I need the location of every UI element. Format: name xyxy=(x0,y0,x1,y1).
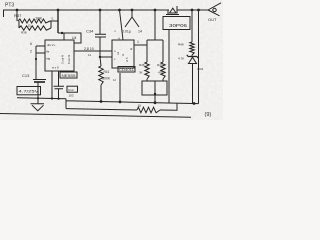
resistor R41 xyxy=(99,57,103,102)
svg-text:thr: thr xyxy=(46,50,50,54)
node dot P xyxy=(154,101,157,104)
svg-text:103: 103 xyxy=(69,94,74,98)
svg-text:w z 8: w z 8 xyxy=(52,66,59,70)
svg-text:8 vcc N: 8 vcc N xyxy=(67,55,71,64)
capacitor C14 on pin 5 xyxy=(54,71,65,99)
node dot F xyxy=(154,9,157,12)
node dot O xyxy=(119,101,122,104)
svg-text:v2: v2 xyxy=(116,52,120,56)
node dot A xyxy=(16,9,19,12)
svg-text:ct: ct xyxy=(121,54,125,57)
svg-text:6: 6 xyxy=(30,42,32,46)
svg-text:300K: 300K xyxy=(103,77,111,81)
node dot N xyxy=(100,100,103,103)
svg-text:(9): (9) xyxy=(205,112,212,118)
svg-text:dis V+: dis V+ xyxy=(47,43,56,47)
wire bottom bus xyxy=(66,99,199,109)
wire IC2 bottom to bus xyxy=(119,73,121,102)
svg-text:2,8 10: 2,8 10 xyxy=(84,47,94,51)
node dot R xyxy=(99,56,101,58)
resistor R48 xyxy=(190,10,194,57)
resistor R37 xyxy=(18,19,58,23)
connector OUT xyxy=(208,3,221,16)
gate IC2 box xyxy=(112,40,134,68)
svg-text:4.7K: 4.7K xyxy=(178,57,184,61)
resistor R47 xyxy=(161,40,165,81)
node dot D xyxy=(118,9,121,12)
op-amp U4 timer IC1 box xyxy=(45,40,74,71)
svg-text:14: 14 xyxy=(138,30,142,34)
resistor R49 xyxy=(137,107,160,113)
wire Q1 to bus xyxy=(168,30,170,104)
label NE555 xyxy=(60,72,77,78)
svg-text:R48: R48 xyxy=(178,43,184,47)
node dot S xyxy=(154,93,156,95)
node dot H xyxy=(197,9,200,12)
svg-text:C34: C34 xyxy=(86,29,94,34)
svg-text:trig: trig xyxy=(46,57,50,61)
svg-text:NE555: NE555 xyxy=(62,74,76,78)
svg-text:R41: R41 xyxy=(104,70,110,74)
svg-text:G: G xyxy=(28,24,31,28)
svg-text:4.7/25V: 4.7/25V xyxy=(19,90,40,94)
capacitor C34 xyxy=(95,10,106,57)
wire node to IC2 pin xyxy=(100,56,112,58)
node dot C13 gnd xyxy=(37,97,39,99)
label CD4011 xyxy=(118,67,135,73)
svg-text:47K: 47K xyxy=(158,71,163,75)
svg-text:3K: 3K xyxy=(139,71,143,75)
svg-text:3 out N: 3 out N xyxy=(61,55,65,64)
svg-text:11: 11 xyxy=(88,53,91,57)
capacitor C35 branch xyxy=(125,10,139,27)
svg-text:R37: R37 xyxy=(14,13,22,18)
ground xyxy=(31,104,45,111)
pin 2 wire xyxy=(36,52,45,54)
bottom rule xyxy=(0,114,191,118)
wire right column xyxy=(198,10,200,104)
svg-text:1: 1 xyxy=(137,40,139,44)
wire rail to R46 R47 xyxy=(147,10,163,40)
node dot M xyxy=(57,98,59,100)
svg-text:10K: 10K xyxy=(35,16,42,21)
svg-text:0.01µ: 0.01µ xyxy=(122,30,131,34)
wire lower return xyxy=(66,109,137,110)
svg-text:2: 2 xyxy=(30,50,32,54)
pin 6 wire xyxy=(36,45,45,47)
wire ground bus xyxy=(17,98,66,99)
svg-text:PT3: PT3 xyxy=(5,3,14,9)
wire top supply rail left xyxy=(4,10,170,17)
wire pin7 stub xyxy=(63,33,65,40)
svg-text:U4: U4 xyxy=(72,36,77,40)
wire pins to C13 xyxy=(36,46,38,80)
pin 1 stub xyxy=(51,71,53,99)
node dot L xyxy=(51,97,53,99)
svg-text:CD4011: CD4011 xyxy=(119,68,134,72)
diode D1 zener xyxy=(187,55,198,58)
node dot B xyxy=(57,9,60,12)
svg-text:R46: R46 xyxy=(139,63,145,67)
node dot K xyxy=(35,58,37,60)
svg-text:R38: R38 xyxy=(21,31,27,35)
node dot G xyxy=(191,9,194,12)
capacitor C13 xyxy=(33,79,46,81)
wire top rail right of Q1 xyxy=(178,9,209,11)
node dot E xyxy=(131,9,134,12)
node dot J xyxy=(61,32,63,34)
resistor R46 xyxy=(145,40,149,81)
wire drop to R37 xyxy=(16,10,18,21)
node dot Q xyxy=(193,102,196,105)
node dot C xyxy=(99,9,102,12)
wire IC2 out pin 1 xyxy=(134,44,147,46)
svg-text:C13: C13 xyxy=(22,73,30,78)
wire node to IC1 xyxy=(57,10,59,33)
svg-text:ct 5: ct 5 xyxy=(125,57,129,62)
svg-text:R47: R47 xyxy=(157,63,163,67)
buzzer HTD box xyxy=(142,81,167,95)
resistor R38 parallel xyxy=(18,21,20,28)
svg-text:30P06: 30P06 xyxy=(169,23,188,28)
transistor Q1 30P06 xyxy=(166,10,179,15)
wire IC1 out to IC2 xyxy=(74,50,112,52)
wire rail to IC2 pin 4 xyxy=(120,10,124,40)
svg-text:4002: 4002 xyxy=(197,67,204,71)
svg-text:C14: C14 xyxy=(68,88,74,92)
svg-text:OUT: OUT xyxy=(208,17,217,22)
